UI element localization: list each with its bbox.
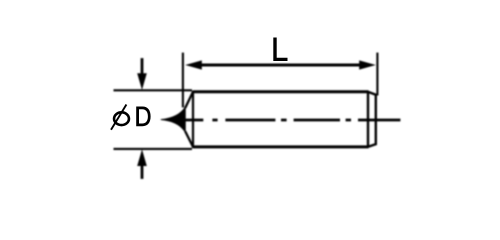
pin body top edge [193,90,369,93]
cone slant top [185,92,193,108]
oD label: diameter symbol [111,105,129,130]
oD label: D [136,107,150,127]
L label [273,38,287,62]
oD bottom arrow [141,164,144,179]
point spike (filled tip) [161,107,186,132]
L arrowhead left [185,60,202,69]
oD top extension line [114,89,193,91]
oD top arrow [141,58,144,75]
pin body left face [192,91,194,149]
centerline dash-dot [186,119,401,122]
L dimension right extension line [376,53,378,96]
cone slant bottom [185,131,193,147]
chamfer edge line [367,92,369,147]
L arrowhead right [359,60,376,69]
L dimension left extension line [182,53,184,108]
pin body bottom edge [193,145,369,148]
pin body right face with chamfers [368,92,376,147]
L dimension line [200,64,360,67]
oD bottom extension line [114,148,193,150]
